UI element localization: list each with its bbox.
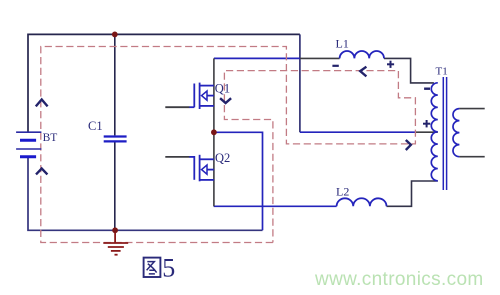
svg-text:L1: L1 [336,36,349,50]
arrow left on dashed path at L1 [360,67,366,77]
svg-text:BT: BT [43,132,58,144]
plus sign L1 [387,61,394,68]
minus sign T1 [424,87,430,89]
arrow up on left dashed path lower [36,169,47,175]
mosfet Q1 [189,83,214,109]
wire center vertical from top rail down to transformer tap [299,34,301,132]
arrow right on dashed path at tap [406,140,411,150]
transformer T1 primary winding [431,83,438,181]
inductor L2 [337,198,387,206]
wire Q2 gate lead [165,156,189,158]
svg-text:5: 5 [162,254,175,283]
current loop dashed path left [41,47,416,243]
wire junction to midpoint drop [214,132,263,230]
mosfet Q2 [189,155,214,182]
arrow up on left dashed path upper [36,100,48,107]
wire L1 feed blue from Q1 drain [214,57,300,59]
transformer T1 core [443,77,446,190]
junction dot bottom rail [112,227,118,233]
svg-text:www.cntronics.com: www.cntronics.com [314,269,484,290]
wire battery+ to top rail [28,34,300,131]
ground [103,233,128,255]
plus sign T1 [423,120,430,127]
svg-text:Q1: Q1 [215,82,230,96]
wire tap end black to transformer [415,131,438,133]
wire Q1 pin vertical [213,58,215,132]
wire C1 top [114,34,116,135]
transformer T1 secondary winding [453,109,459,157]
capacitor C1 [104,137,127,142]
battery BT [16,132,41,157]
inductor L1 [340,51,384,58]
figure label 图5 [144,258,161,277]
wire battery- to bottom rail [28,158,263,231]
wire L1 feed gray [300,57,340,59]
arrow down on dashed path at Q1 [220,98,231,103]
wire L2 to transformer bottom [387,181,438,206]
svg-text:Q2: Q2 [215,151,230,165]
wire T1 secondary top lead [459,108,484,110]
svg-text:T1: T1 [436,65,448,77]
wire T1 secondary bottom lead [459,156,484,158]
svg-text:C1: C1 [88,119,103,133]
minus sign L1 [332,65,338,67]
wire tap horizontal blue [300,131,415,133]
wire C1 bottom [114,142,116,230]
svg-text:L2: L2 [336,185,349,199]
wire Q2 pin vertical [213,132,215,206]
wire L1 to transformer top [384,58,434,83]
wire Q2 source to L2 [214,205,337,207]
junction dot Q1-Q2 midpoint [211,129,217,135]
wire Q1 gate lead [165,106,189,108]
junction dot top rail [112,32,118,38]
